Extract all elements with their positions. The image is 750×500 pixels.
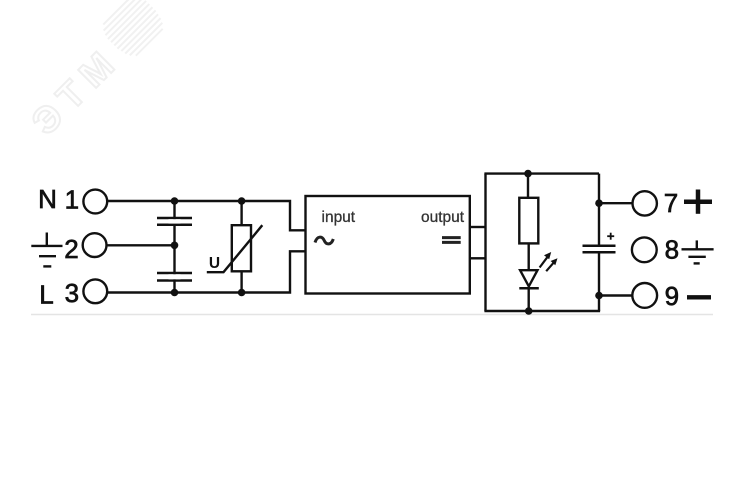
svg-text:1: 1 [65, 184, 79, 214]
wire varistor branch [240, 201, 242, 225]
svg-text:N: N [38, 184, 57, 214]
terminal circle 1 [83, 190, 107, 214]
LED D1 triangle [520, 270, 537, 286]
wire to terminal 9 [599, 294, 633, 296]
varistor RU1 body [232, 225, 251, 271]
junction dot N-varistor [238, 197, 246, 205]
LED cathode bar [519, 287, 539, 290]
node dot LED top [524, 170, 532, 178]
terminal circle 3 [83, 279, 107, 303]
wire N line [107, 201, 305, 230]
watermark ЭТМ logo [24, 0, 169, 143]
capacitor C3 plus sign [607, 233, 614, 240]
capacitor C1 [157, 218, 192, 225]
capacitor C3 electrolytic [583, 246, 616, 252]
svg-text:output: output [421, 209, 465, 226]
svg-text:3: 3 [65, 278, 79, 308]
wire LED branch top [527, 174, 529, 198]
node dot terminal 9 tap [595, 292, 603, 300]
wire LED to rail [528, 288, 530, 311]
node dot LED bottom [525, 307, 533, 315]
svg-text:8: 8 [665, 235, 679, 265]
wire output lower stub [470, 257, 486, 259]
wire line 2 [107, 244, 175, 246]
separator line [31, 314, 713, 316]
svg-text:7: 7 [664, 188, 678, 218]
wire capacitor bus vertical [173, 201, 175, 293]
node dot terminal 7 tap [595, 199, 603, 207]
LED arrow 2 [546, 258, 557, 271]
minus symbol [687, 295, 711, 299]
ground symbol left [31, 233, 62, 267]
resistor R1 [519, 198, 538, 244]
terminal circle 8 [632, 237, 657, 262]
wire top rail [484, 172, 599, 174]
LED arrow 1 [540, 252, 552, 268]
svg-text:9: 9 [665, 281, 679, 311]
ac sine symbol [315, 237, 333, 244]
svg-text:2: 2 [64, 234, 78, 264]
wire bottom rail [484, 310, 600, 312]
svg-text:ЭТМ: ЭТМ [24, 38, 128, 142]
junction dot L-C2 [171, 289, 179, 297]
wire output upper stub [470, 226, 486, 228]
junction dot N-C1 [171, 197, 179, 205]
junction dot L-varistor [238, 289, 246, 297]
wire right bus lower [598, 252, 600, 311]
terminal circle 2 [83, 233, 107, 257]
svg-text:L: L [39, 279, 53, 309]
dc symbol bars [442, 236, 461, 239]
wire output bus vertical [484, 174, 486, 311]
svg-text:U: U [209, 255, 220, 272]
plus symbol [684, 190, 712, 214]
terminal circle 9 [632, 283, 657, 308]
wire resistor to LED [528, 243, 530, 270]
converter block U1 [306, 196, 470, 294]
wire to terminal 7 [599, 202, 633, 204]
ground symbol right [682, 240, 714, 263]
svg-text:input: input [322, 209, 356, 226]
wire L line [107, 251, 305, 292]
varistor diagonal stroke [207, 225, 262, 272]
wire right bus upper [598, 174, 600, 246]
terminal circle 7 [633, 191, 657, 215]
junction dot mid-C1C2 [171, 242, 179, 250]
capacitor C2 [157, 273, 192, 281]
